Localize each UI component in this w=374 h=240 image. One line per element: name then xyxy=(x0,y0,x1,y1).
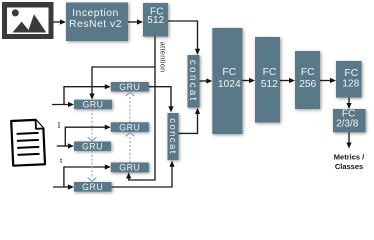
box FC 2/3/8 xyxy=(333,109,366,133)
ellipsis dots between input 2 and 3 xyxy=(60,159,62,163)
box FC 256 xyxy=(295,51,320,109)
svg-text:2/3/8: 2/3/8 xyxy=(336,119,359,130)
wire: FC 512 to FC 256 xyxy=(280,80,291,82)
svg-text:Classes: Classes xyxy=(335,162,363,171)
wire: GRU L3 output to lower concat bottom xyxy=(112,165,173,187)
svg-text:ResNet v2: ResNet v2 xyxy=(69,19,122,30)
GRU R2 xyxy=(111,122,149,132)
GRU R3 xyxy=(111,163,149,173)
box FC 128 xyxy=(336,61,362,98)
GRU L1 xyxy=(74,100,112,110)
svg-text:FC: FC xyxy=(263,67,277,78)
svg-text:GRU: GRU xyxy=(119,122,140,132)
svg-text:1024: 1024 xyxy=(218,79,241,90)
wire: lower concat to upper concat bottom xyxy=(179,112,198,133)
svg-text:concat: concat xyxy=(167,118,178,154)
wire: word input 1 xyxy=(52,104,70,106)
svg-text:concat: concat xyxy=(187,60,198,103)
dashed state wire R3 to R2 xyxy=(129,136,131,163)
svg-text:256: 256 xyxy=(299,79,316,90)
box lower concat (rotated label) xyxy=(167,113,179,160)
wire: FC 512 to upper concat (top) xyxy=(168,21,198,50)
box FC 1024 xyxy=(212,28,242,134)
wire: word input 3 xyxy=(53,186,70,188)
wire: Inception to FC 512 xyxy=(128,21,138,23)
box Inception ResNet v2 xyxy=(66,3,128,42)
wire: word input 1 branch up to GRU R1 xyxy=(64,87,106,105)
svg-text:FC: FC xyxy=(344,68,358,79)
svg-text:GRU: GRU xyxy=(82,100,103,110)
svg-text:GRU: GRU xyxy=(82,182,103,192)
svg-text:FC: FC xyxy=(222,67,236,78)
GRU L2 xyxy=(74,141,111,151)
wire: FC 256 to FC 128 xyxy=(320,80,332,82)
wire: upper concat to FC 1024 xyxy=(200,80,208,82)
dashed state wire L2 to L3 xyxy=(91,151,93,178)
svg-text:128: 128 xyxy=(342,79,359,90)
svg-text:GRU: GRU xyxy=(82,141,103,151)
wire: word input 3 branch up to GRU R3 xyxy=(64,167,106,187)
dashed state wire R2 to R1 xyxy=(129,95,131,122)
wire: FC 128 down to FC 2/3/8 xyxy=(348,98,350,105)
wire: FC 2/3/8 down to metrics xyxy=(348,133,350,144)
svg-text:Inception: Inception xyxy=(72,8,119,19)
svg-text:512: 512 xyxy=(261,79,278,90)
svg-text:512: 512 xyxy=(147,15,164,26)
svg-text:GRU: GRU xyxy=(119,163,140,173)
wire: attention branch to GRU L1 top xyxy=(92,67,155,95)
box upper concat (rotated label) xyxy=(187,55,199,108)
wire: FC 1024 to FC 512 xyxy=(242,80,250,82)
svg-text:attention: attention xyxy=(159,42,168,73)
wire: attention line down from FC 512 xyxy=(129,37,155,181)
document icon xyxy=(11,120,45,166)
wire: GRU R1 output to lower concat top xyxy=(149,87,171,107)
wire: word input 2 branch up to GRU R2 xyxy=(65,127,106,146)
dashed state wire L1 to L2 xyxy=(91,109,93,137)
svg-text:FC: FC xyxy=(301,67,315,78)
GRU R1 xyxy=(111,82,149,92)
box FC 512 (tall) xyxy=(255,37,280,123)
ellipsis dots between input 1 and 2 xyxy=(58,122,60,128)
image icon (photo) xyxy=(2,2,54,39)
wire: image icon to Inception xyxy=(54,21,62,23)
box FC 512 (top) xyxy=(143,3,168,37)
svg-text:GRU: GRU xyxy=(119,82,140,92)
GRU L3 xyxy=(74,182,112,192)
svg-text:Metrics /: Metrics / xyxy=(334,152,365,161)
wire: word input 2 xyxy=(57,145,70,147)
